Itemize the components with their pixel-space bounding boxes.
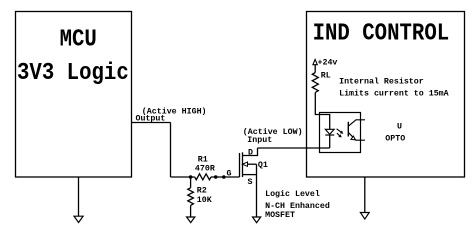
wire output horizontal — [132, 122, 171, 124]
svg-text:N-CH Enhanced: N-CH Enhanced — [265, 201, 330, 211]
svg-text:Limits current to 15mA: Limits current to 15mA — [339, 89, 449, 99]
svg-text:Logic Level: Logic Level — [265, 189, 320, 199]
svg-text:+24v: +24v — [318, 58, 338, 67]
power +24v symbol — [313, 59, 317, 64]
svg-text:IND CONTROL: IND CONTROL — [313, 19, 450, 47]
light arrow 2 — [337, 133, 342, 137]
wire LED cathode down — [329, 135, 331, 148]
ground MCU — [74, 216, 83, 222]
svg-text:Internal Resistor: Internal Resistor — [339, 77, 424, 87]
phototransistor emitter — [348, 132, 365, 140]
wire MCU ground stem — [78, 177, 80, 216]
svg-text:D: D — [248, 149, 253, 158]
wire rail left — [171, 176, 195, 178]
svg-text:S: S — [248, 178, 253, 187]
svg-text:3V3 Logic: 3V3 Logic — [17, 59, 129, 87]
IND CONTROL block box — [307, 12, 465, 178]
svg-text:10K: 10K — [197, 196, 212, 205]
wire drain to opto — [258, 147, 330, 149]
wire R2 top stem — [190, 177, 192, 188]
resistor R2 — [188, 188, 194, 206]
svg-text:G: G — [227, 169, 232, 178]
svg-text:OPTO: OPTO — [385, 134, 405, 143]
wire IND ground stem — [364, 177, 366, 213]
ground Q1 source — [253, 217, 261, 223]
MCU block box — [16, 12, 132, 178]
svg-text:R2: R2 — [197, 187, 207, 196]
junction dot C — [222, 175, 226, 179]
wire source down — [256, 175, 258, 217]
transistor Q1 body arrow — [243, 162, 257, 175]
optocoupler U box — [320, 113, 361, 153]
svg-text:470R: 470R — [195, 164, 215, 173]
resistor R1 — [195, 174, 211, 180]
phototransistor base bar — [347, 122, 349, 137]
svg-text:U: U — [397, 123, 402, 132]
transistor Q1 channel bar — [242, 152, 244, 177]
resistor RL — [312, 73, 318, 93]
light arrow 1 — [337, 129, 344, 134]
svg-text:MOSFET: MOSFET — [265, 211, 295, 220]
junction dot B — [214, 175, 218, 179]
svg-text:RL: RL — [321, 72, 331, 81]
transistor Q1 gate bar — [239, 153, 241, 177]
junction dot node A — [189, 175, 193, 179]
transistor Q1 source stub — [243, 174, 257, 176]
LED diode — [325, 129, 334, 135]
wire R1 to gate — [211, 176, 240, 178]
wire power to RL — [314, 65, 316, 73]
phototransistor collector — [348, 120, 365, 126]
svg-text:Input: Input — [247, 136, 272, 145]
ground R2 — [187, 217, 195, 223]
wire R2 bottom stem — [190, 205, 192, 217]
ground IND — [360, 213, 369, 220]
transistor Q1 drain stub — [243, 148, 258, 156]
svg-text:Q1: Q1 — [258, 161, 268, 170]
wire output vertical — [170, 123, 172, 178]
svg-text:MCU: MCU — [60, 25, 97, 53]
wire RL to LED anode — [315, 93, 329, 130]
